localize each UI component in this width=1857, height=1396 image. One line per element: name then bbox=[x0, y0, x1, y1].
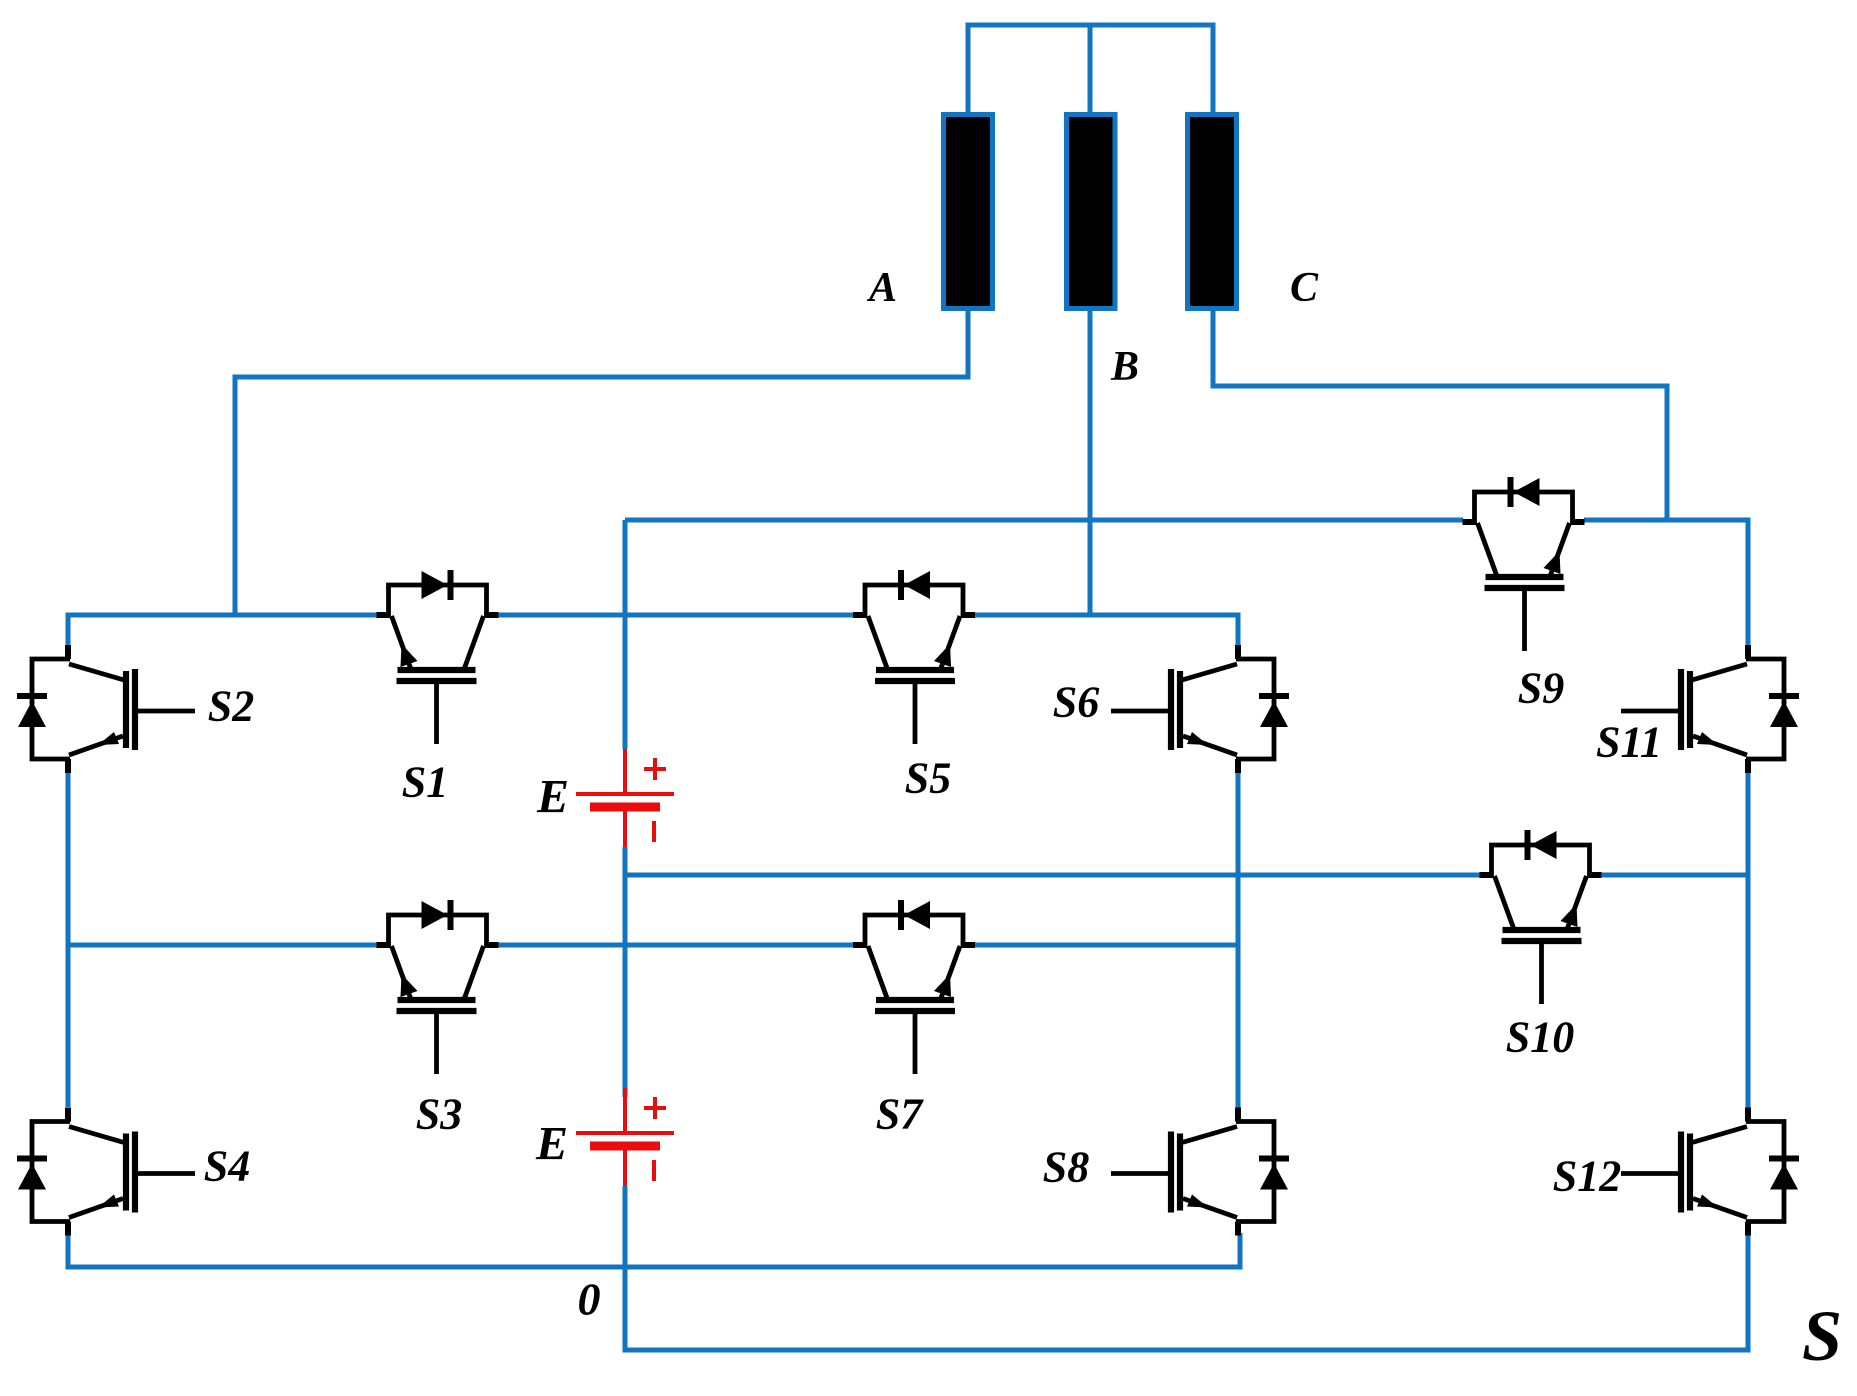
battery E2 bbox=[576, 1088, 674, 1186]
wire S6 bottom to S8 top bbox=[1236, 770, 1241, 1108]
svg-text:S7: S7 bbox=[876, 1090, 924, 1139]
load A bbox=[944, 115, 993, 309]
transistor S1 bbox=[377, 570, 499, 744]
transistor S11 bbox=[1621, 645, 1799, 773]
wire row 1 (S1-S5 rail from S2 top to S6 top) bbox=[68, 615, 1238, 646]
wire S9 row (battery 1 top to S9 to S11 top) bbox=[625, 520, 1748, 646]
wire S2 bottom to S4 top bbox=[66, 772, 71, 1107]
wire top bus connecting loads A B C bbox=[968, 25, 1213, 112]
svg-text:S: S bbox=[1802, 1296, 1842, 1376]
transistor S7 bbox=[853, 900, 975, 1074]
wire phase B lead: load B bottom down to row 1 bbox=[1088, 308, 1093, 615]
svg-text:S4: S4 bbox=[204, 1142, 250, 1191]
transistor S3 bbox=[377, 900, 499, 1074]
wire phase A lead: load A bottom, left, down to row 1 bbox=[235, 308, 968, 615]
transistor S10 bbox=[1480, 830, 1602, 1004]
svg-text:S12: S12 bbox=[1553, 1152, 1621, 1201]
wire phase C lead: load C bottom, right, down to S9 row bbox=[1213, 308, 1667, 522]
wire bottom bus (battery 2 bottom to S12 bottom) bbox=[625, 1186, 1748, 1350]
transistor S2 bbox=[17, 645, 195, 773]
wire battery 1 bottom to battery 2 top bbox=[623, 847, 628, 1097]
wire S10 row (battery mid-point to S10 to S11/S12 leg) bbox=[625, 873, 1748, 878]
transistor S8 bbox=[1111, 1108, 1289, 1236]
svg-text:S9: S9 bbox=[1518, 664, 1564, 713]
svg-text:0: 0 bbox=[578, 1274, 601, 1325]
svg-text:C: C bbox=[1290, 265, 1319, 311]
svg-text:S11: S11 bbox=[1596, 718, 1662, 767]
svg-text:S3: S3 bbox=[416, 1090, 462, 1139]
transistor S5 bbox=[853, 570, 975, 744]
transistor S12 bbox=[1621, 1108, 1799, 1236]
svg-text:S8: S8 bbox=[1043, 1143, 1089, 1192]
transistor S6 bbox=[1111, 645, 1289, 773]
svg-text:S10: S10 bbox=[1506, 1013, 1574, 1062]
svg-text:B: B bbox=[1110, 344, 1139, 390]
transistor S4 bbox=[17, 1108, 195, 1236]
wire battery 1 top lead bbox=[623, 520, 628, 749]
svg-text:S6: S6 bbox=[1053, 678, 1099, 727]
load B bbox=[1067, 115, 1116, 309]
wire row 2 (S3-S7 rail) bbox=[68, 943, 1238, 948]
wire S11 bottom to S12 top bbox=[1746, 772, 1751, 1108]
svg-text:S5: S5 bbox=[905, 754, 951, 803]
battery E1 bbox=[576, 749, 674, 847]
load C bbox=[1188, 115, 1237, 309]
svg-text:A: A bbox=[866, 265, 897, 311]
transistor S9 bbox=[1463, 477, 1585, 651]
svg-text:S2: S2 bbox=[208, 682, 254, 731]
wire bottom bus 0 (S4 bottom to S8 bottom) bbox=[68, 1233, 1240, 1267]
svg-text:E: E bbox=[536, 771, 569, 824]
svg-text:E: E bbox=[535, 1118, 568, 1171]
svg-text:S1: S1 bbox=[402, 758, 448, 807]
